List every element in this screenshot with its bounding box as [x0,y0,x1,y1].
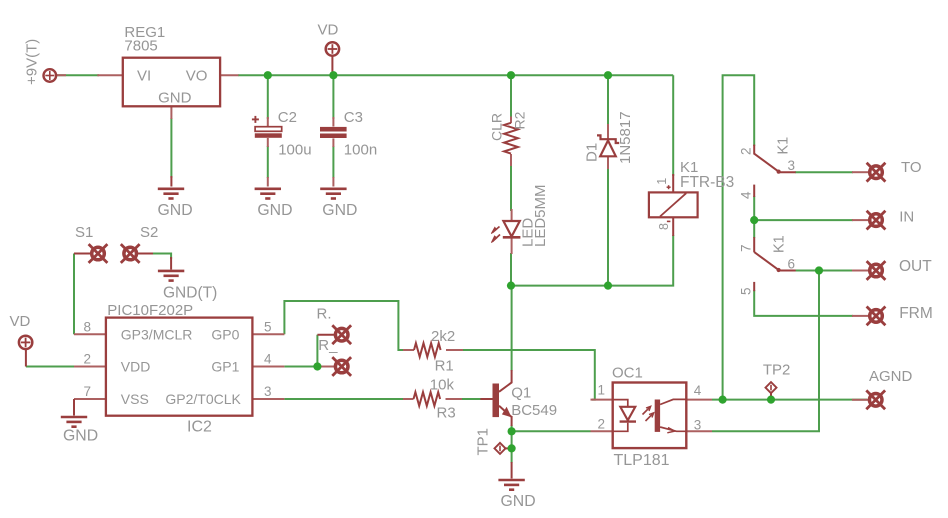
capacitor C2 plate top [255,127,282,132]
connector +9V(T) [44,69,57,82]
svg-text:100n: 100n [344,142,377,159]
voltage regulator REG1 box [123,58,220,107]
wire C2 branch [267,75,269,119]
svg-text:FRM: FRM [899,305,933,322]
pin X FRM [852,315,868,317]
svg-text:GP1: GP1 [211,359,239,375]
connector OUT pad [867,261,886,280]
svg-text:Q1: Q1 [511,385,531,402]
diode LED cathode bar [503,236,521,239]
svg-text:S1: S1 [75,224,93,241]
pin REG1 gnd symbol stub [170,176,172,187]
svg-text:3: 3 [264,384,272,399]
pin jumper R_ [319,366,335,368]
svg-text:3: 3 [788,158,796,173]
svg-text:1: 1 [598,383,606,398]
optocoupler OC1 led cathode bar [620,420,636,422]
pin Q1 collector stub [511,370,513,383]
svg-text:FTR-B3: FTR-B3 [680,174,734,191]
svg-text:GND: GND [501,493,536,510]
pin K1 contact 7 [753,237,755,252]
test point TP1 [494,443,505,454]
pin OC1 1 [591,399,613,401]
pin S2 gnd stub [170,257,172,270]
svg-text:VDD: VDD [121,359,151,375]
transistor Q1 emitter arrow [502,407,512,418]
resistor R2 [504,123,518,154]
junction OUT row [815,266,823,274]
pin C2 gnd [267,177,269,187]
wire AGND row [712,399,867,401]
pin Q1 base [480,398,492,400]
wire OUT to OC1 pin3 [712,271,819,432]
pin LED top [511,209,513,221]
wire emitter to TP1/GND [511,431,513,463]
pin D1 top [607,124,609,139]
wire GP2 to R3 [284,398,403,400]
optocoupler OC1 led cathode path [613,423,628,432]
svg-text:7805: 7805 [124,38,157,55]
pin C2 bottom [267,138,269,147]
pin C2 top [267,117,269,127]
pin X TO [852,171,868,173]
svg-text:LED5MM: LED5MM [532,184,549,247]
relay K1 contact arm b pivot [777,268,781,272]
svg-text:TLP181: TLP181 [614,452,670,469]
diode D1 body [600,141,616,157]
pin R3 right [446,398,463,400]
connector jumper R. [332,325,351,344]
ground symbol C2 [255,189,281,199]
connector TO pad [867,163,886,182]
pin C3 top [332,117,334,127]
ground symbol REG1 [158,189,184,199]
wire S2 to GND(T) [151,254,171,260]
svg-text:VSS: VSS [121,391,149,407]
pin IC2 3 [252,398,284,400]
svg-text:6: 6 [788,257,796,272]
resistor R3 [414,392,441,406]
svg-text:IC2: IC2 [187,419,212,436]
wire AGND net top loop [723,75,755,399]
wire R2 branch [510,75,512,121]
wire Q1 emitter to OC1 pin2 [512,425,591,431]
svg-text:5: 5 [739,287,754,295]
svg-text:OUT: OUT [899,258,932,275]
wire +9V to REG1 VI [56,74,99,76]
pin OC1 4 [686,399,712,401]
pin K1 coil 1 [672,174,674,192]
svg-text:4: 4 [264,352,272,367]
svg-text:2: 2 [598,417,606,432]
svg-text:C2: C2 [278,109,297,126]
svg-text:4: 4 [739,191,754,199]
connector IN pad [867,211,886,230]
pin K1 contact 3 [779,171,796,173]
pin IC2 7 [74,398,106,400]
svg-text:PIC10F202P: PIC10F202P [107,302,193,319]
diode D1 schottky bar [597,135,619,143]
relay K1 coil minus mark [667,220,671,222]
svg-text:GND: GND [158,202,193,219]
svg-text:K1: K1 [772,235,788,253]
pin X OUT [852,270,868,272]
pin VD top stub [331,55,333,72]
optocoupler OC1 emitter arrow [667,428,675,433]
wire TO net [795,171,853,173]
svg-text:2: 2 [84,352,92,367]
resistor R1 [414,343,441,357]
optocoupler OC1 light arrow 2 [646,413,654,421]
pin LED bottom [511,238,513,254]
svg-text:7: 7 [739,244,754,252]
junction R2 rail [507,71,515,79]
relay K1 contact arm a pivot [777,170,781,174]
svg-text:CLR: CLR [489,113,505,141]
wire R1 to OC1 pin1 [462,350,595,400]
svg-text:GND: GND [257,202,292,219]
wire VD rail top [238,74,673,76]
svg-text:3: 3 [694,418,702,433]
svg-text:R_: R_ [318,337,338,354]
svg-text:TP1: TP1 [475,428,492,456]
optocoupler OC1 photo base bar [655,400,660,432]
junction D1 bottom rail [604,282,612,290]
wire GP1 to jumpers [284,366,317,368]
diode LED arrow 2 [491,235,500,243]
pin S2 [138,253,154,255]
pin R3 left [403,398,414,400]
pin IC2 8 [74,333,106,335]
pin IC2 4 [252,366,284,368]
svg-text:VD: VD [10,313,31,330]
svg-text:2k2: 2k2 [431,328,455,345]
svg-text:IN: IN [899,209,914,226]
relay K1 coil plus mark [667,185,671,189]
wire D1 branch [607,75,609,126]
connector jumper R_ [332,357,351,376]
wire IN net vertical [753,196,755,238]
pin K1 contact 4 [753,185,755,197]
capacitor C2 plus sign [252,116,259,123]
pin X IN [852,219,868,221]
optocoupler OC1 light arrow 1 [643,406,651,414]
svg-text:R.: R. [317,306,332,323]
relay K1 contact arm b [754,252,778,270]
svg-text:5: 5 [264,320,272,335]
svg-text:GP0: GP0 [211,327,239,343]
svg-text:1N5817: 1N5817 [617,111,634,164]
svg-text:GP3/MCLR: GP3/MCLR [121,327,193,343]
wire FRM net [754,290,853,316]
pin R2 top [510,117,512,124]
connector S2 [121,244,140,263]
svg-text:VO: VO [186,68,208,85]
svg-text:D1: D1 [584,143,601,162]
junction TP1 [508,444,516,452]
relay K1 coil box [649,192,698,217]
wire IN net horizontal [754,219,853,221]
ground symbol C3 [320,189,346,199]
junction C3 rail [329,71,337,79]
transistor Q1 base bar [493,384,500,418]
svg-text:OC1: OC1 [612,365,643,382]
pin K1 coil 8 [672,217,674,236]
svg-text:GND: GND [63,428,98,445]
svg-text:1: 1 [655,178,669,185]
optocoupler OC1 led anode path [613,400,628,407]
svg-text:GP2/T0CLK: GP2/T0CLK [165,391,241,407]
optocoupler OC1 box [613,383,687,449]
junction emitter OC1 row [508,427,516,435]
pin IC2 2 [74,366,106,368]
connector S1 [89,244,108,263]
wire relay coil branch upper [672,75,674,176]
pin R1 left [403,349,414,351]
svg-text:K1: K1 [776,137,792,155]
relay K1 contact arm a [754,154,778,172]
svg-text:8: 8 [657,223,671,230]
optocoupler OC1 collector lead [660,399,686,404]
svg-text:VD: VD [318,22,339,39]
ground symbol GND(T) [158,271,184,281]
junction IN row [750,216,758,224]
pin OC1 3 [686,430,712,432]
wire REG1 GND down [170,118,172,178]
capacitor C3 plate bottom [320,134,347,139]
svg-text:GND(T): GND(T) [163,285,217,302]
diode LED arrow 1 [491,227,499,234]
junction TP2 [767,396,775,404]
svg-text:10k: 10k [430,377,455,394]
transistor Q1 emitter lead [499,406,511,417]
IC2 PIC10F202P box [106,318,253,416]
svg-text:+9V(T): +9V(T) [24,39,41,85]
pin TP1 stub [504,447,510,449]
pin TP2 stub [770,392,772,400]
diode LED body [503,221,519,237]
wire jumper R. vertical [316,335,318,367]
pin OC1 2 [591,430,613,432]
relay K1 coil diagonal [660,193,686,216]
wire S1 to GP3 [73,254,75,335]
svg-text:7: 7 [84,384,92,399]
power symbol VD left [19,336,32,349]
wire LED to bottom rail [510,253,512,286]
svg-text:VI: VI [137,68,151,85]
svg-text:100u: 100u [278,142,311,159]
wire relay coil branch lower [511,235,673,286]
junction jumpers GP1 [313,362,321,370]
svg-text:2: 2 [739,147,754,155]
svg-text:GND: GND [322,202,357,219]
pin K1 contact 5 [753,282,755,291]
pin +9V connector [57,74,67,76]
svg-text:4: 4 [694,383,702,398]
wire Q1 collector [511,286,513,371]
transistor Q1 collector lead [499,382,512,392]
junction AGND vertical [719,396,727,404]
capacitor C3 plate top [320,127,347,132]
svg-text:S2: S2 [140,224,158,241]
capacitor C2 plate bottom [255,133,282,138]
pin REG1 GND [170,106,172,119]
pin Q1 gnd stub [511,462,513,479]
pin IC2 5 [252,333,284,335]
pin K1 contact 6 [779,270,796,272]
wire C3 branch [332,75,334,119]
pin REG1 VO [220,74,238,76]
pin VSS to GND [73,399,75,416]
pin C3 gnd [332,177,334,187]
svg-text:TO: TO [901,159,922,176]
pin D1 bottom [607,157,609,170]
junction C2 rail [264,71,272,79]
power symbol VD top [326,42,339,55]
svg-text:AGND: AGND [869,368,913,385]
pin REG1 VI [97,74,123,76]
test point TP2 [765,382,776,393]
pin jumper R. [317,334,335,336]
svg-text:BC549: BC549 [511,402,557,419]
pin S1 [74,253,91,255]
svg-text:TP2: TP2 [763,362,791,379]
svg-text:GND: GND [158,90,192,107]
wire VD to VDD [26,366,75,368]
svg-text:8: 8 [84,320,92,335]
junction D1 rail [604,71,612,79]
pin VD left stub [25,349,27,367]
connector FRM pad [867,307,886,326]
wire R3 to Q1 base [461,398,482,400]
wire OUT net [795,270,853,272]
svg-text:R2: R2 [512,111,528,129]
svg-text:C3: C3 [344,109,363,126]
pin X AGND [852,399,868,401]
ground symbol Q1 [498,480,524,490]
pin R1 right [446,349,463,351]
svg-text:R3: R3 [437,405,456,422]
pin K1 contact 2 [753,145,755,155]
optocoupler OC1 emitter lead [660,427,686,431]
svg-text:R1: R1 [435,358,454,375]
pin C3 bottom [332,138,334,147]
pin R2 bottom [510,154,512,166]
pin Q1 emitter stub [511,416,513,426]
junction LED bottom rail [507,282,515,290]
optocoupler OC1 led body [620,407,635,421]
connector AGND pad [866,390,885,409]
ground symbol VSS [61,417,87,427]
wire GP0 to R1 [284,301,403,350]
